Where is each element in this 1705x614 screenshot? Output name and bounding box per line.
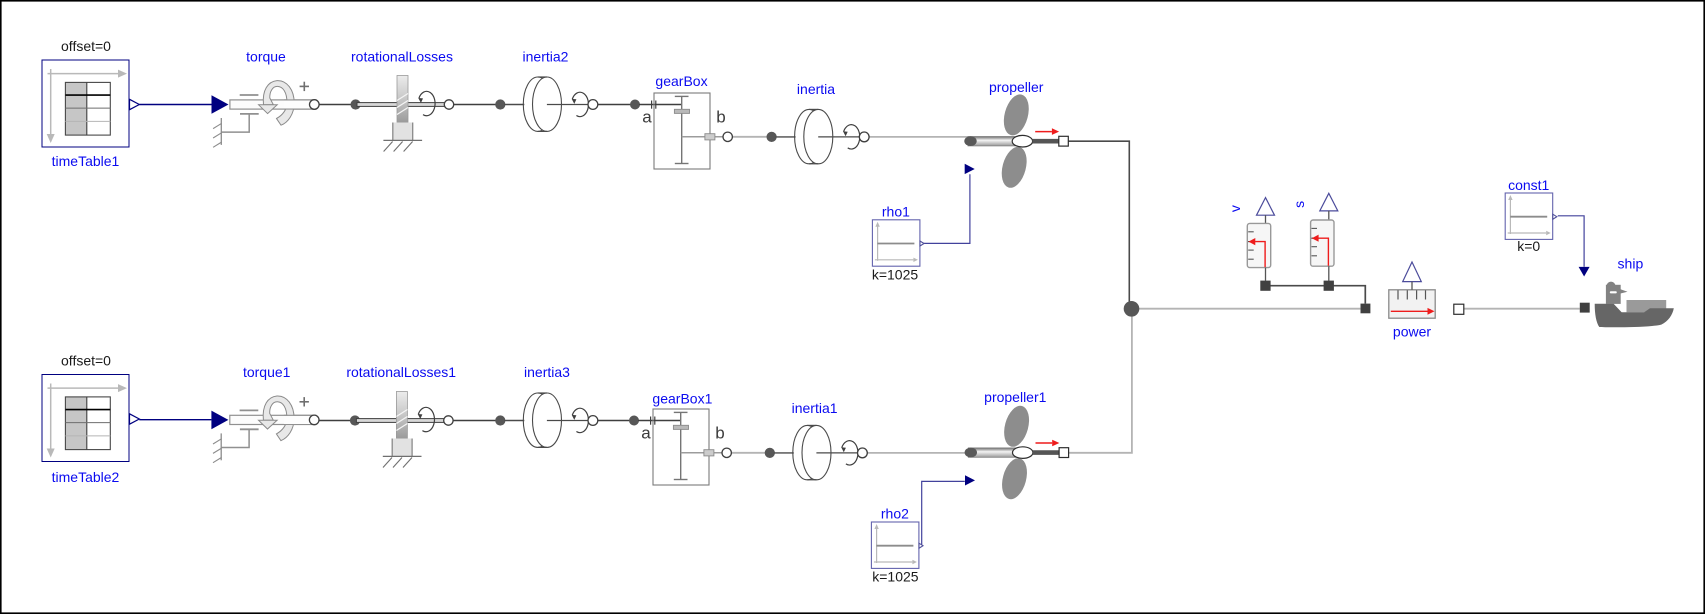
torque source torque1 — [211, 396, 319, 463]
wire inertia2 to gearBox — [593, 104, 635, 106]
gear box gearBox1 — [629, 409, 731, 485]
sensor v — [1247, 198, 1274, 291]
svg-text:k=1025: k=1025 — [872, 267, 919, 283]
time table block timeTable1 — [42, 60, 139, 147]
wire gearBox to inertia — [728, 136, 772, 138]
constant block rho1 — [872, 220, 924, 266]
constant block const1 — [1505, 193, 1557, 239]
svg-text:v: v — [1227, 205, 1243, 212]
svg-text:power: power — [1393, 324, 1431, 340]
wire gearBox1 to inertia1 — [727, 452, 770, 454]
input connector arrow of ship from const1 — [1579, 267, 1590, 277]
wire timeTable1 to torque — [139, 104, 211, 106]
inertia element inertia — [767, 109, 870, 163]
wire rho1 to propeller rho input — [924, 174, 970, 243]
rotational losses element rotationalLosses — [351, 76, 454, 152]
junction node of propeller shaft lines — [1124, 301, 1140, 317]
svg-text:rho1: rho1 — [882, 204, 910, 220]
wire junction node to power sensor — [1135, 308, 1360, 310]
wire rotationalLosses to inertia2 — [449, 104, 500, 106]
svg-text:k=1025: k=1025 — [872, 568, 919, 584]
propeller propeller1 — [965, 403, 1069, 502]
wire torque to rotationalLosses — [314, 104, 355, 106]
svg-text:k=0: k=0 — [1517, 238, 1540, 254]
svg-text:rotationalLosses1: rotationalLosses1 — [346, 364, 456, 380]
svg-text:inertia2: inertia2 — [523, 49, 569, 65]
svg-text:offset=0: offset=0 — [61, 38, 111, 54]
wire inertia1 to propeller1 — [862, 452, 968, 454]
svg-text:propeller: propeller — [989, 79, 1044, 95]
wire power sensor to ship — [1464, 308, 1580, 310]
inertia element inertia3 — [495, 393, 598, 447]
wire timeTable2 to torque1 — [139, 419, 211, 421]
svg-text:torque1: torque1 — [243, 364, 291, 380]
wire inertia3 to gearBox1 — [593, 420, 634, 422]
wire const1 to ship input — [1558, 216, 1584, 267]
ship block — [1580, 282, 1674, 328]
svg-text:inertia: inertia — [797, 81, 835, 97]
wire rho2 to propeller1 rho input — [922, 481, 965, 546]
rho input connector of propeller1 — [965, 475, 975, 485]
svg-text:gearBox1: gearBox1 — [652, 390, 712, 406]
svg-text:const1: const1 — [1508, 177, 1549, 193]
svg-text:torque: torque — [246, 49, 286, 65]
svg-text:a: a — [641, 423, 651, 442]
inertia element inertia1 — [765, 425, 868, 479]
svg-text:gearBox: gearBox — [655, 73, 707, 89]
wire torque1 to rotationalLosses1 — [314, 420, 355, 422]
propeller propeller — [964, 92, 1068, 191]
svg-text:rotationalLosses: rotationalLosses — [351, 49, 453, 65]
svg-text:propeller1: propeller1 — [984, 389, 1046, 405]
gear box gearBox — [630, 93, 732, 169]
svg-text:rho2: rho2 — [881, 506, 909, 522]
svg-text:b: b — [715, 423, 724, 442]
rotational losses element rotationalLosses1 — [350, 392, 453, 468]
svg-text:s: s — [1291, 201, 1307, 208]
svg-text:offset=0: offset=0 — [61, 353, 111, 369]
svg-text:inertia1: inertia1 — [792, 400, 838, 416]
power sensor — [1361, 262, 1464, 318]
svg-text:b: b — [716, 107, 725, 126]
wire propeller to junction node — [1068, 141, 1129, 305]
svg-text:timeTable1: timeTable1 — [52, 153, 120, 169]
time table block timeTable2 — [42, 375, 139, 462]
torque source torque — [212, 81, 320, 148]
inertia element inertia2 — [495, 77, 598, 131]
sensor s — [1311, 193, 1338, 291]
rho input connector of propeller — [965, 164, 975, 174]
svg-text:inertia3: inertia3 — [524, 364, 570, 380]
wire propeller1 to junction node — [1068, 312, 1132, 453]
wire rotationalLosses1 to inertia3 — [448, 420, 500, 422]
wire sensors v and s to power sensor — [1266, 286, 1366, 304]
constant block rho2 — [871, 522, 923, 568]
svg-text:ship: ship — [1618, 256, 1644, 272]
svg-text:a: a — [642, 107, 652, 126]
wire inertia to propeller — [864, 136, 968, 138]
svg-text:timeTable2: timeTable2 — [52, 469, 120, 485]
